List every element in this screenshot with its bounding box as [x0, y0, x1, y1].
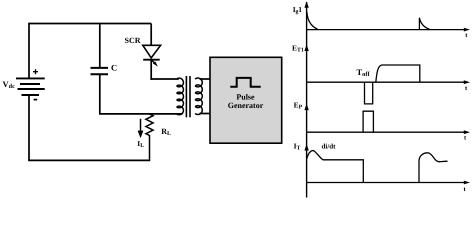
wire secondary top to pulse generator [200, 78, 211, 80]
plot Ig1 t-axis arrowhead [464, 28, 470, 32]
pulse generator box [210, 57, 282, 143]
wire left lower (battery to bottom wire) [28, 95, 30, 160]
plot Ig1 baseline (t axis) [307, 29, 467, 31]
Ep pulse [363, 111, 373, 132]
wire SCR anode [150, 24, 152, 46]
wire SCR cathode down [150, 60, 152, 80]
Ig1 spike 2 [419, 18, 429, 30]
plot Ig1 axis arrowhead up [304, 1, 308, 8]
waveform common vertical axis [306, 2, 308, 198]
ET1 negative pulse [365, 82, 373, 104]
wire capacitor branch lower [99, 75, 101, 114]
transformer primary winding [177, 78, 184, 115]
plot IT t-axis arrowhead [464, 181, 470, 185]
svg-text:Ig1: Ig1 [293, 5, 302, 15]
wire bottom [28, 159, 150, 161]
plot IT baseline (t axis) [307, 182, 467, 184]
plot ET1 baseline (t axis) [307, 81, 467, 83]
plot ET1 t-axis arrowhead [464, 80, 470, 84]
svg-text:SCR: SCR [125, 36, 141, 45]
capacitor C [91, 68, 109, 74]
plot ET1 axis arrowhead up [304, 44, 308, 51]
label + (battery) [33, 69, 38, 74]
ET1 positive step [376, 65, 420, 82]
label - (battery) [34, 99, 38, 101]
wire top (battery to SCR anode) [29, 23, 151, 25]
plot Ep baseline (t axis) [307, 131, 467, 133]
transformer secondary winding [195, 78, 202, 114]
SCR gate lead with arrowhead [152, 60, 156, 64]
current arrow IL [140, 119, 142, 131]
Ig1 spike 1 [307, 12, 318, 29]
svg-text:di/dt: di/dt [322, 142, 337, 150]
plot Ep t-axis arrowhead [464, 130, 470, 134]
plot IT axis arrowhead up [304, 144, 308, 151]
wire bottom middle (cap to transformer primary bottom) [99, 113, 182, 115]
transformer core [186, 76, 190, 117]
svg-text:Generator: Generator [228, 101, 264, 110]
pulse icon [230, 78, 260, 87]
wire secondary bottom to pulse generator [200, 113, 211, 115]
battery Vdc [16, 78, 45, 95]
IT waveform 1 (hump, plateau, drop) [307, 151, 364, 183]
wire left upper (top wire down to battery) [28, 23, 30, 78]
wire capacitor branch upper [99, 24, 101, 68]
resistor RL [146, 114, 153, 160]
wire cathode junction to transformer primary top [150, 78, 178, 80]
plot Ep axis arrowhead up [304, 104, 308, 111]
svg-text:C: C [111, 63, 117, 73]
SCR [143, 45, 161, 59]
IT waveform 2 (rise, hump, tail) [419, 153, 448, 183]
